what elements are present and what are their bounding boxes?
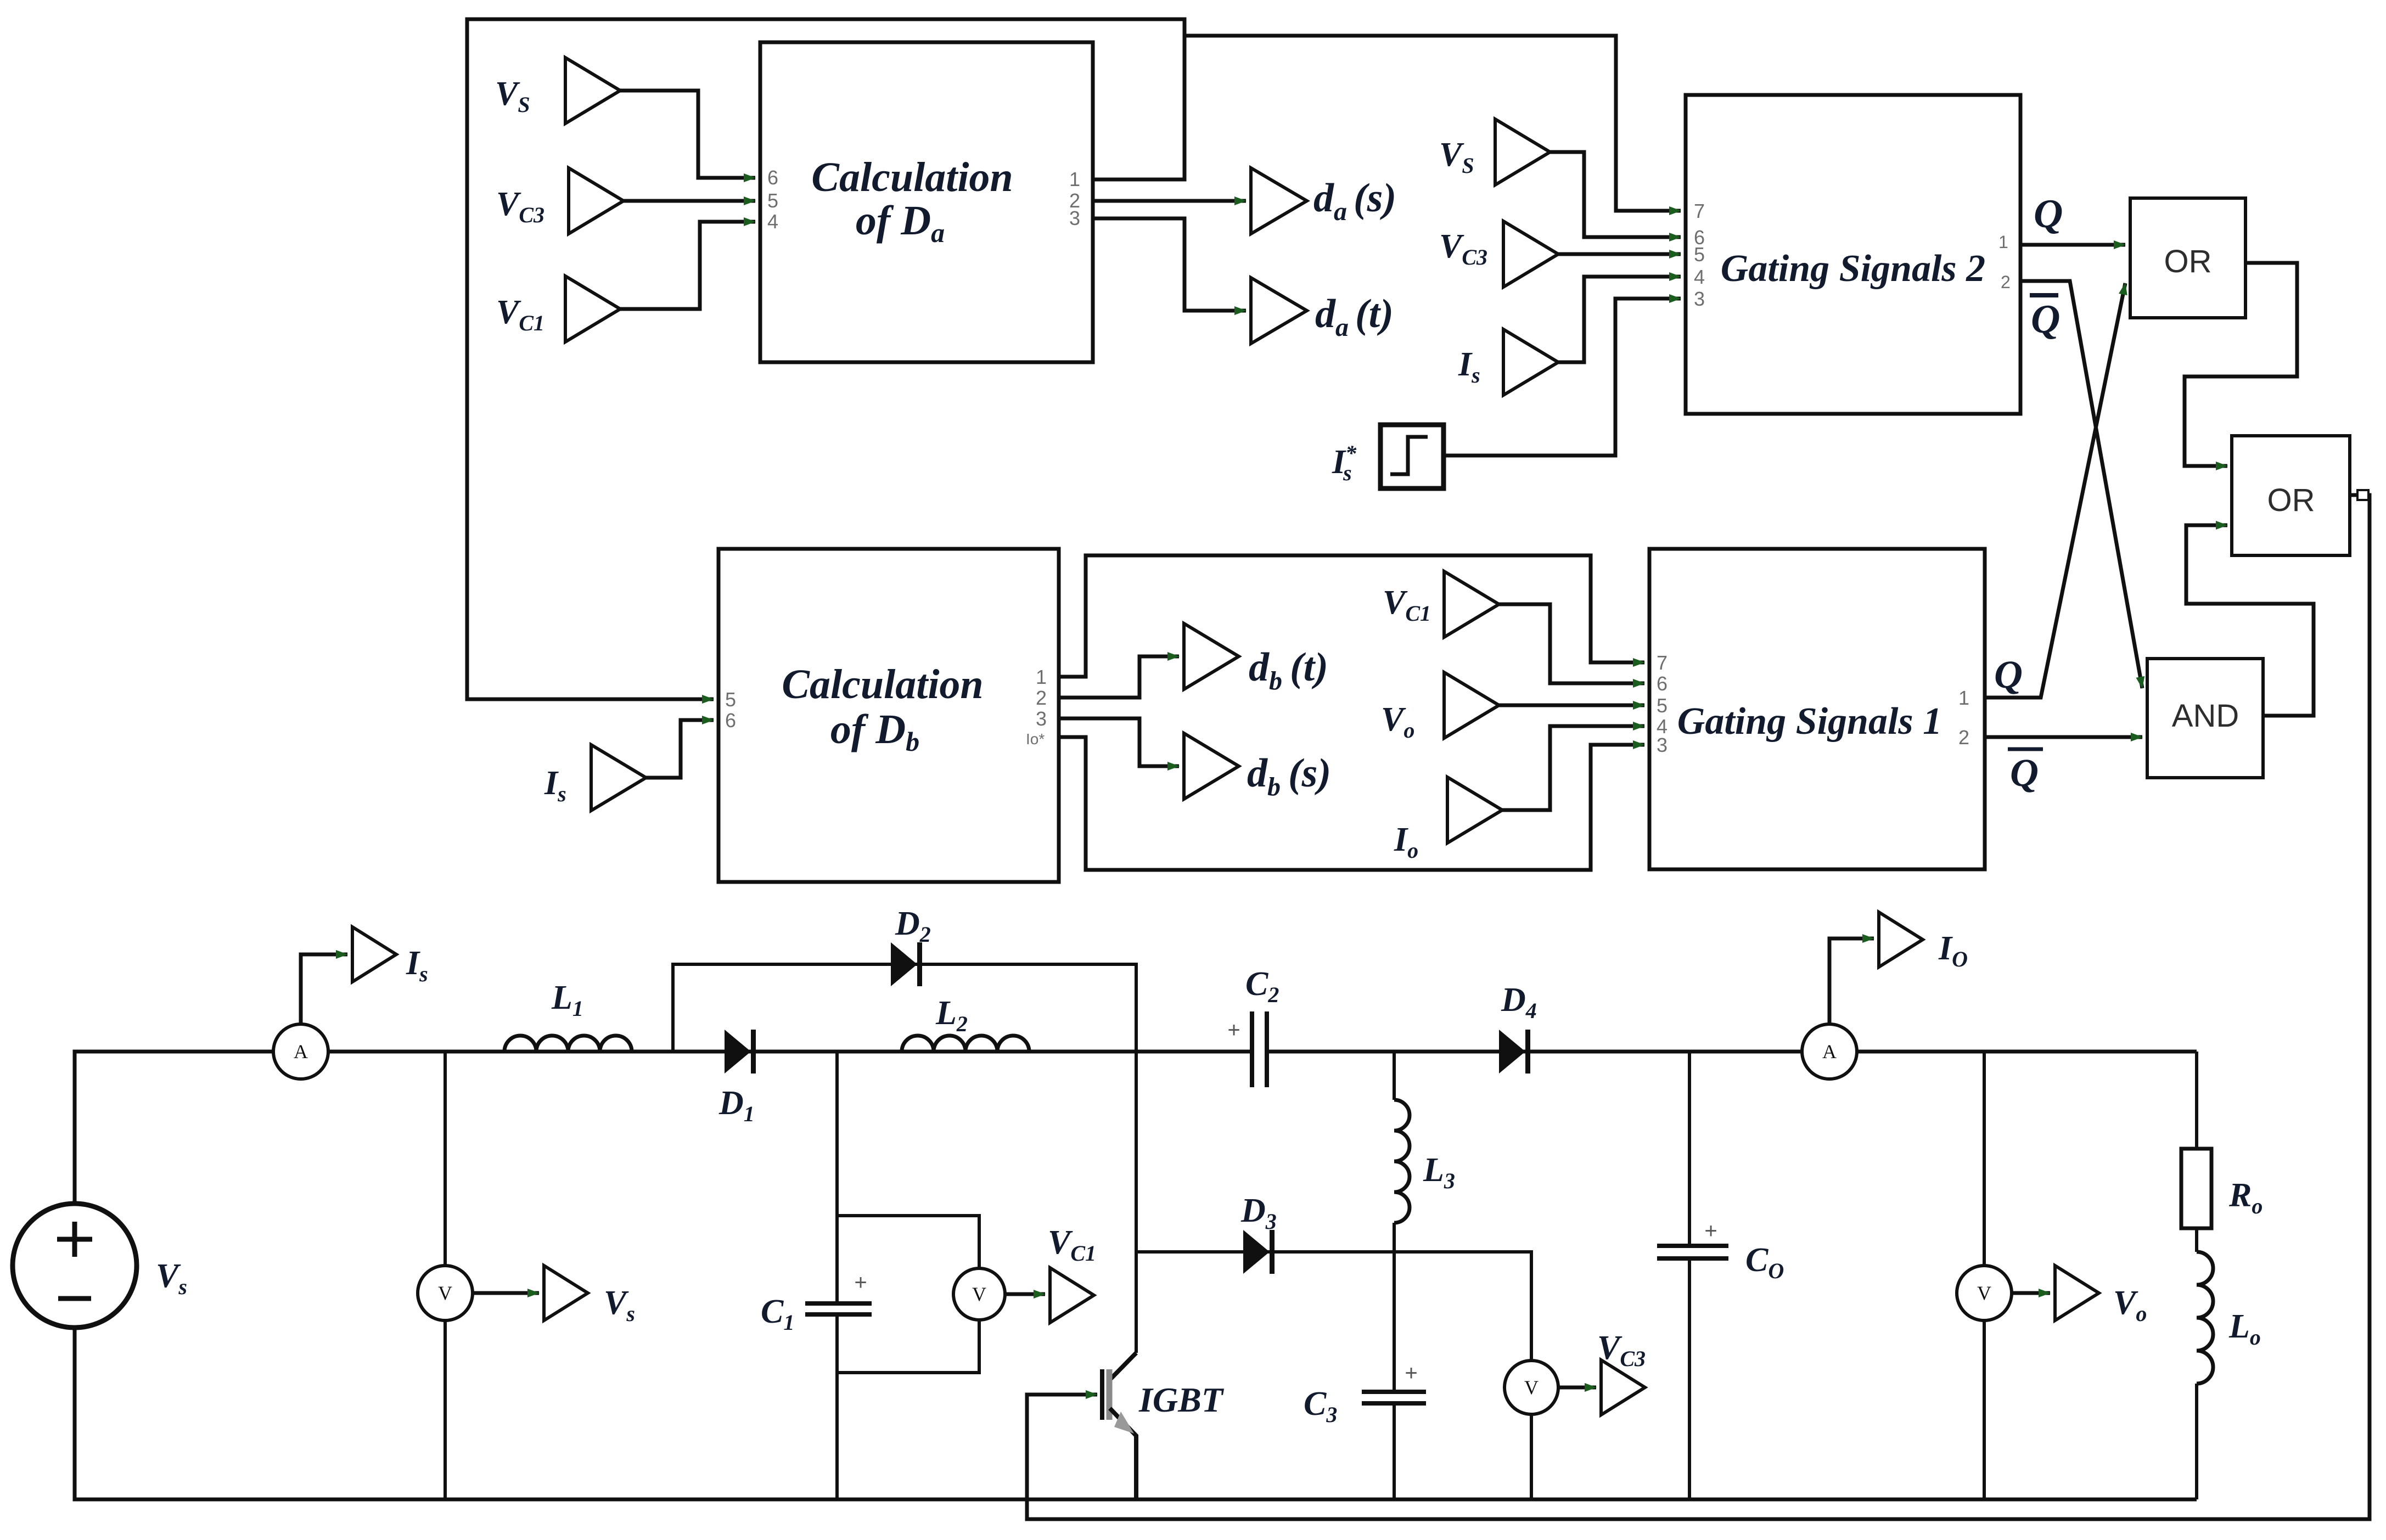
wire Vc1 pickoff to Da in4: [620, 222, 755, 309]
svg-text:+: +: [1704, 1219, 1717, 1243]
block Gating Signals 2: [1686, 95, 2020, 414]
inductor L1: [504, 1036, 632, 1052]
wire Da out2 to da(s) gain: [1093, 199, 1246, 203]
wire GS1 Q diagonal to OR1 in2: [1985, 283, 2125, 698]
wire Vs voltmeter branch: [443, 1052, 447, 1499]
wire Vc3 pickoff to Da in5: [624, 199, 755, 203]
wire IGBT collector node to D3 to Vc3 meter: [1136, 1252, 1531, 1361]
inductor L2: [902, 1036, 1029, 1052]
ammeter A source: [273, 1024, 328, 1079]
block Gating Signals 1: [1649, 549, 1985, 869]
wire step Is* to GS2 in3: [1444, 299, 1681, 456]
svg-text:OR: OR: [2267, 482, 2315, 518]
svg-text:+: +: [1227, 1018, 1240, 1042]
voltmeter V source: [418, 1266, 473, 1320]
wire GS2 Qbar diagonal to AND in1: [2019, 281, 2142, 688]
wire Io pickoff to GS1 in4: [1502, 726, 1644, 810]
wire Vo pickoff to GS1 in5: [1499, 704, 1644, 707]
svg-text:7: 7: [1657, 651, 1668, 674]
wire C1 branch lower: [835, 1314, 839, 1499]
wire Vc1 voltmeter loop top: [837, 1216, 979, 1268]
wire Vc1 voltmeter loop bottom: [837, 1320, 979, 1373]
goto triangle Vc3 (bottom): [1601, 1360, 1645, 1415]
svg-text:1: 1: [1069, 168, 1080, 190]
wire L3 to D3 node: [1393, 1223, 1396, 1252]
wire Db out1 to GS1 in7 (top of group box): [1059, 555, 1644, 677]
step source Is* block: [1380, 425, 1444, 488]
voltmeter V C1: [953, 1268, 1005, 1320]
svg-text:5: 5: [725, 688, 736, 711]
wire Is pickoff to Db in6: [646, 720, 714, 778]
svg-text:(t): (t): [1290, 645, 1328, 690]
gain triangle db(t): [1184, 623, 1239, 689]
wire bottom ground rail: [75, 1328, 2197, 1499]
svg-text:IGBT: IGBT: [1138, 1380, 1225, 1419]
wire GS2 Q to OR1 in1: [2019, 243, 2125, 247]
svg-text:OR: OR: [2164, 244, 2212, 279]
wire GS1 Qbar to AND in2: [1985, 735, 2142, 739]
svg-text:5: 5: [767, 189, 778, 212]
wire load branch: [2195, 1052, 2198, 1499]
pickoff triangle Is (to Db): [591, 745, 646, 811]
wire L3 branch upper: [1393, 1052, 1396, 1100]
wire voltmeter to Vs goto: [473, 1291, 539, 1295]
svg-text:A: A: [1822, 1041, 1837, 1063]
wire Vc3 pickoff2 to GS2 in5: [1558, 252, 1681, 256]
svg-text:Q: Q: [1994, 653, 2023, 696]
diode D1: [725, 1030, 756, 1073]
pickoff triangle Io (to GS1): [1447, 777, 1502, 843]
wire voltmeter to Vo goto: [2012, 1291, 2050, 1295]
resistor Ro: [2181, 1149, 2211, 1228]
OR2 output stub: [2357, 490, 2368, 500]
voltmeter V output: [1957, 1266, 2012, 1320]
wire Vs pickoff2 to GS2 in6: [1550, 152, 1681, 237]
wire Vc1 pickoff3 to GS1 in6: [1499, 604, 1644, 683]
block Calculation of Da (subsystem): [760, 42, 1093, 362]
svg-text:Gating Signals 1: Gating Signals 1: [1677, 700, 1942, 743]
AND gate block: [2147, 659, 2263, 778]
voltage source Vs: [13, 1204, 137, 1328]
wire Da out1 to Db in5 (outer loop): [467, 19, 1184, 699]
diode D3: [1243, 1230, 1275, 1274]
svg-text:6: 6: [725, 709, 736, 732]
OR gate block 1: [2130, 198, 2245, 318]
svg-text:V: V: [1524, 1376, 1539, 1398]
diode D2: [891, 942, 922, 986]
wire D2 branch to IGBT collector: [673, 964, 1136, 1353]
wire C1 branch upper: [835, 1052, 839, 1303]
OR gate block 2: [2232, 436, 2350, 555]
inductor Lo: [2197, 1252, 2213, 1384]
svg-text:Calculation: Calculation: [811, 154, 1013, 200]
svg-text:Gating Signals 2: Gating Signals 2: [1721, 248, 1985, 290]
wire Db out3 to db(s) gain: [1059, 718, 1179, 766]
goto triangle Vc1 (bottom): [1050, 1268, 1094, 1323]
svg-text:+: +: [854, 1271, 867, 1295]
svg-text:6: 6: [767, 166, 778, 189]
wire Co branch upper: [1688, 1052, 1691, 1246]
svg-text:3: 3: [1069, 207, 1080, 229]
capacitor C3: [1362, 1392, 1426, 1403]
svg-text:Q: Q: [2010, 751, 2039, 795]
block Calculation of Db (subsystem): [718, 549, 1059, 882]
gain triangle db(s): [1184, 733, 1239, 799]
goto triangle Vs (bottom): [544, 1266, 588, 1320]
wire voltmeter to Vc3 goto: [1558, 1386, 1596, 1390]
wire Db outIo* to GS1 in3 (bottom of group box): [1059, 737, 1644, 870]
goto triangle Io (bottom): [1879, 912, 1923, 967]
svg-text:5: 5: [1657, 694, 1668, 717]
svg-text:2: 2: [1958, 726, 1969, 749]
svg-text:1: 1: [1998, 232, 2008, 252]
svg-text:3: 3: [1694, 288, 1705, 310]
wire Is pickoff2 to GS2 in4: [1558, 277, 1681, 362]
svg-text:A: A: [294, 1041, 308, 1063]
goto triangle Vo (bottom): [2055, 1266, 2099, 1320]
pickoff triangle Vc1 (to GS1): [1444, 571, 1499, 637]
svg-text:(s): (s): [1354, 176, 1396, 221]
wire OR1 out to OR2 in1: [2185, 263, 2297, 466]
capacitor C1: [805, 1303, 872, 1314]
wire top rail right (C2 to Ro branch): [1267, 1050, 2197, 1054]
svg-text:V: V: [438, 1282, 452, 1304]
wire OR2 out feedback to IGBT gate: [1027, 495, 2370, 1519]
capacitor Co: [1657, 1246, 1728, 1258]
capacitor C2: [1252, 1011, 1267, 1087]
svg-text:Calculation: Calculation: [782, 661, 983, 707]
svg-text:1: 1: [1958, 687, 1969, 709]
svg-text:AND: AND: [2172, 698, 2239, 734]
ammeter A output: [1802, 1024, 1857, 1079]
wire voltmeter to Vc1 goto: [1005, 1292, 1045, 1296]
svg-text:7: 7: [1694, 200, 1705, 222]
gain triangle da(t): [1251, 278, 1307, 344]
svg-text:1: 1: [1036, 666, 1047, 688]
svg-text:3: 3: [1657, 734, 1668, 756]
pickoff triangle Vs (to GS2): [1495, 119, 1550, 185]
gain triangle da(s): [1251, 168, 1307, 234]
pickoff triangle Is (to GS2): [1503, 329, 1558, 395]
svg-text:4: 4: [1694, 266, 1705, 288]
wire D3 node to C3: [1393, 1252, 1396, 1392]
wire branch to Gating Signals 2 in7: [1184, 36, 1681, 211]
svg-text:+: +: [1405, 1361, 1417, 1385]
pickoff triangle Vc3 (to GS2): [1503, 221, 1558, 287]
pickoff triangle Vo (to GS1): [1444, 672, 1499, 738]
goto triangle Is (bottom): [352, 927, 396, 982]
wire ammeter to Io goto: [1829, 938, 1874, 1024]
svg-text:(s): (s): [1288, 751, 1331, 796]
svg-text:V: V: [972, 1283, 986, 1305]
wire C3 to ground: [1393, 1403, 1396, 1499]
svg-text:Io*: Io*: [1026, 730, 1045, 747]
svg-text:Q: Q: [2031, 297, 2060, 342]
transistor IGBT: [1102, 1353, 1136, 1499]
pickoff triangle Vc1 (to Da): [565, 276, 620, 342]
voltmeter V C3: [1504, 1361, 1558, 1414]
wire Da out3 to da(t) gain: [1093, 218, 1246, 311]
svg-text:2: 2: [1036, 687, 1047, 709]
inductor L3: [1394, 1100, 1410, 1223]
pickoff triangle Vc3 (to Da): [569, 168, 624, 234]
svg-text:4: 4: [767, 210, 778, 233]
wire Vc3 meter to ground: [1530, 1414, 1533, 1499]
svg-text:Q: Q: [2034, 192, 2063, 237]
svg-text:(t): (t): [1355, 291, 1394, 336]
svg-text:2: 2: [2001, 272, 2011, 292]
pickoff triangle Vs (to Da): [565, 58, 620, 123]
svg-text:V: V: [1977, 1282, 1991, 1304]
wire Vs pickoff to Da in6: [620, 91, 755, 178]
wire AND out to OR2 in2: [2186, 525, 2314, 716]
wire Db out2 to db(t) gain: [1059, 656, 1179, 698]
diode D4: [1499, 1030, 1530, 1073]
svg-text:3: 3: [1036, 707, 1047, 730]
wire Vo voltmeter branch: [1983, 1052, 1986, 1499]
svg-text:5: 5: [1694, 243, 1705, 266]
wire ammeter to Is goto: [301, 954, 347, 1024]
svg-text:6: 6: [1657, 672, 1668, 695]
wire Co branch lower: [1688, 1258, 1691, 1499]
wire top rail left (Vs to C2): [75, 1052, 1252, 1204]
